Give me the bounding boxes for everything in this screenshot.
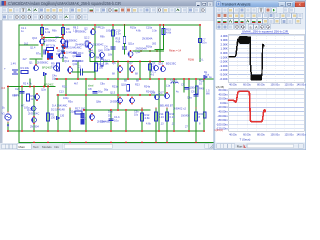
transistor Q5c <box>100 53 105 58</box>
svg-text:120.00u: 120.00u <box>284 133 294 136</box>
svg-text:140.00u: 140.00u <box>296 84 306 87</box>
svg-text:100p: 100p <box>24 107 30 110</box>
svg-text:56p: 56p <box>104 89 109 92</box>
svg-text:165: 165 <box>64 44 69 47</box>
application background <box>0 0 306 150</box>
wire upper-left stub <box>19 44 38 46</box>
svg-text:Transient Analysis: Transient Analysis <box>222 2 251 7</box>
svg-text:0.13: 0.13 <box>170 115 176 119</box>
svg-text:10: 10 <box>199 82 202 86</box>
resistor R6 <box>41 28 44 35</box>
svg-text:3.3n: 3.3n <box>152 30 157 33</box>
wire v x167 <box>166 108 168 143</box>
svg-text:v(34,0): v(34,0) <box>215 128 223 132</box>
svg-text:40.00u: 40.00u <box>229 133 237 136</box>
diode D5 <box>47 54 52 60</box>
svg-text:C13: C13 <box>59 91 64 94</box>
resistor R23b <box>127 85 130 92</box>
wire main mid rail y79 <box>55 78 214 80</box>
wire v x174 <box>173 79 175 131</box>
svg-text:300: 300 <box>152 43 157 46</box>
svg-text:4.6k: 4.6k <box>166 31 172 35</box>
junction dots new wires <box>124 24 126 26</box>
wire mid row y61.5 <box>112 61 164 63</box>
wire v x184 <box>183 79 185 92</box>
top plot horizontal gridlines <box>229 36 305 79</box>
svg-text:O.L: O.L <box>200 59 205 62</box>
svg-text:C6: C6 <box>191 90 195 94</box>
bottom plot x labels <box>229 133 306 136</box>
svg-text:C1: C1 <box>78 65 82 69</box>
bottom plot frame <box>229 89 305 131</box>
resistor R17 <box>75 111 82 114</box>
transistor Q15 <box>154 66 159 71</box>
wire v x90 <box>89 49 91 62</box>
capacitor C2 <box>20 91 24 93</box>
svg-text:x: x <box>299 2 301 7</box>
svg-text:C14: C14 <box>151 65 156 68</box>
svg-text:C8: C8 <box>88 87 92 91</box>
wire v x204 <box>203 79 205 131</box>
resistor R12 <box>141 113 144 121</box>
transistor Q2b <box>88 44 93 49</box>
wire top supply rail <box>19 24 200 26</box>
wire v x42 top <box>41 25 43 39</box>
wire v x34 <box>33 87 35 132</box>
wire stub y49.5 <box>155 49 164 51</box>
wire v x86 <box>85 79 87 131</box>
main toolbar row 2 <box>0 14 306 21</box>
diode D5b solid <box>81 120 84 125</box>
transistor Q10 <box>40 39 45 44</box>
svg-text:4.6k: 4.6k <box>145 116 151 120</box>
wire v x95 <box>94 25 96 79</box>
svg-text:x: x <box>209 3 211 7</box>
junction dots top rail <box>41 24 43 26</box>
svg-text:D2a: D2a <box>70 111 75 114</box>
wire v x126 <box>125 110 127 131</box>
wire v x66 <box>65 79 67 95</box>
svg-text:D5a: D5a <box>108 111 113 114</box>
svg-text:Text: Text <box>33 145 39 149</box>
capacitor C15 <box>123 46 127 48</box>
diode D5c solid <box>81 114 84 119</box>
resistor R43 <box>101 59 104 66</box>
wire row y95 <box>57 94 164 96</box>
svg-text:R2 4.7k: R2 4.7k <box>23 83 32 86</box>
bottom plot zero axis <box>229 106 305 108</box>
svg-text:2N3904A: 2N3904A <box>142 38 153 41</box>
svg-text:R23: R23 <box>135 84 140 87</box>
svg-text:Q45: Q45 <box>98 50 103 53</box>
main window bottom tab bar <box>0 143 214 150</box>
inductor L1 <box>171 82 178 83</box>
transistor Q4 <box>32 118 37 123</box>
wire v x8 source bottom <box>7 122 9 131</box>
junction dots resistor pins <box>41 34 43 36</box>
svg-text:Q3a: Q3a <box>41 89 46 92</box>
svg-text:R16a: R16a <box>146 46 153 49</box>
svg-text:2N3904C: 2N3904C <box>93 44 104 47</box>
wire v x58 <box>57 95 59 131</box>
wire v x163.5 <box>163 25 165 50</box>
svg-text:10u: 10u <box>134 113 139 116</box>
svg-text:Rbias = 14: Rbias = 14 <box>169 50 182 53</box>
transistor Q14b <box>59 53 64 58</box>
svg-text:BD139C: BD139C <box>166 62 176 66</box>
capacitor C9 <box>185 87 189 89</box>
capacitor C4 <box>77 54 81 56</box>
wire v x140 <box>139 62 141 80</box>
svg-text:Q2.2: Q2.2 <box>84 37 90 40</box>
main toolbar row 1 <box>0 7 306 14</box>
svg-text:10u: 10u <box>114 119 119 123</box>
svg-text:1N5402 x2: 1N5402 x2 <box>173 107 187 111</box>
svg-text:4k7: 4k7 <box>74 83 79 86</box>
wire v x70 <box>69 108 71 131</box>
junction dots row y110 <box>83 109 85 111</box>
wire h y59 <box>30 58 42 60</box>
schematic canvas <box>0 21 214 143</box>
svg-text:R3a: R3a <box>12 95 17 98</box>
svg-text:0.13: 0.13 <box>159 115 165 119</box>
wire v x111 <box>110 110 112 131</box>
transient analysis window <box>214 0 306 150</box>
diode D1 <box>44 73 47 76</box>
svg-text:D4a: D4a <box>63 57 68 60</box>
svg-text:Q8a: Q8a <box>96 101 101 104</box>
svg-text:+: + <box>4 67 6 71</box>
wire v x142 <box>141 108 143 131</box>
svg-text:1.1k: 1.1k <box>45 30 51 34</box>
svg-text:100p: 100p <box>106 30 112 33</box>
wire v x159 <box>158 79 160 131</box>
top waveform (black) <box>229 36 265 81</box>
svg-text:Models: Models <box>42 145 52 149</box>
wire left border rail <box>18 25 20 143</box>
svg-text:100.00u: 100.00u <box>270 133 280 136</box>
svg-text:C:\MC8\DATA\Adam Daglikony\UMA: C:\MC8\DATA\Adam Daglikony\UMAK\UMAK_256… <box>8 1 121 6</box>
svg-text:R5a: R5a <box>68 101 73 104</box>
wire v x200 <box>199 25 201 62</box>
main window title bar (inactive gray-blue) <box>0 0 306 7</box>
svg-text:L1a: L1a <box>166 85 171 88</box>
battery V2 <box>13 69 18 71</box>
wire v x196 <box>195 79 197 143</box>
svg-text:R9b: R9b <box>100 36 105 39</box>
resistor R16 <box>166 112 169 121</box>
resistor R19 <box>162 29 165 35</box>
diode D2 <box>57 117 60 120</box>
wire v x124.5 low <box>124 49 126 54</box>
resistor R1 <box>21 71 28 74</box>
wire v x124.5 top <box>124 25 126 37</box>
svg-text:4u7: 4u7 <box>23 58 28 61</box>
svg-text:R24 10: R24 10 <box>146 91 155 94</box>
svg-text:1.4V: 1.4V <box>11 62 17 66</box>
transistor Q3 <box>35 95 40 100</box>
plot panel <box>216 30 306 143</box>
svg-text:Q10: Q10 <box>32 36 38 40</box>
wire v x128 <box>127 62 129 80</box>
svg-text:130: 130 <box>51 116 56 120</box>
resistor R9 <box>57 63 60 71</box>
wire v x156 <box>155 108 157 143</box>
wire bottom rail y131 <box>8 130 204 132</box>
svg-text:4.6: 4.6 <box>151 73 155 76</box>
capacitor C3 <box>43 50 45 54</box>
svg-text:UMAK_256-b squared 256-b.CIR: UMAK_256-b squared 256-b.CIR <box>242 30 289 34</box>
svg-text:R6b: R6b <box>52 30 57 33</box>
wire bottom border rail <box>19 142 214 144</box>
svg-text:.13: .13 <box>160 123 164 126</box>
top plot y labels <box>220 34 228 81</box>
svg-text:100p: 100p <box>63 97 69 100</box>
junction dots mid row y61.5 <box>112 61 114 63</box>
resistor R8 <box>62 28 65 35</box>
diode D7 <box>204 76 207 79</box>
resistor R40 <box>195 86 198 94</box>
diode D4 <box>62 51 65 54</box>
svg-text:1N5402: 1N5402 <box>181 115 190 118</box>
transistor Q5b <box>90 53 95 58</box>
transistor Q6 <box>118 67 123 72</box>
svg-text:4.6k: 4.6k <box>146 123 151 126</box>
svg-text:140.00u: 140.00u <box>296 133 306 136</box>
wire h y72 left <box>73 71 81 73</box>
svg-text:R18d: R18d <box>188 59 195 62</box>
svg-text:Q44: Q44 <box>88 50 93 53</box>
bottom plot horizontal gridlines <box>229 90 305 129</box>
transistor Q1 <box>34 66 39 71</box>
label misc density <box>2 27 201 129</box>
svg-text:C2: C2 <box>15 87 19 91</box>
svg-text:8W: 8W <box>206 93 210 96</box>
svg-text:Q17: Q17 <box>159 91 165 95</box>
transistor Q18 <box>155 95 160 100</box>
wire h y72 right <box>82 71 94 73</box>
top plot x labels <box>229 84 306 87</box>
svg-text:Q18: Q18 <box>121 84 126 87</box>
svg-text:2N3904C: 2N3904C <box>110 100 121 104</box>
svg-text:80.00u: 80.00u <box>257 133 265 136</box>
capacitor C1 <box>79 69 81 75</box>
wire v x48 <box>47 87 49 132</box>
wire v x42 lower <box>41 45 43 57</box>
svg-text:C5a: C5a <box>100 121 105 124</box>
transistor Q8 <box>90 115 95 120</box>
svg-text:R1 20k: R1 20k <box>21 66 30 70</box>
svg-text:V1: V1 <box>2 112 6 116</box>
wire row y110 <box>84 109 150 111</box>
junction dots y72 <box>72 71 74 73</box>
diode D3 <box>62 46 65 49</box>
svg-text:165: 165 <box>85 44 90 47</box>
svg-text:0.6: 0.6 <box>2 87 6 90</box>
svg-text:C1.b: C1.b <box>114 115 120 119</box>
wire v x165 <box>164 79 166 95</box>
bottom plot y labels <box>216 88 228 131</box>
svg-text:56p: 56p <box>98 90 103 94</box>
svg-text:Q13: Q13 <box>110 91 116 95</box>
svg-text:Q1.4: Q1.4 <box>30 47 36 50</box>
svg-text:Q41: Q41 <box>73 55 78 58</box>
resistor R3 <box>27 94 30 101</box>
resistor R26b <box>149 64 152 70</box>
capacitor C8 <box>93 91 97 93</box>
transistor Q13 <box>118 98 123 103</box>
transistor Q9 <box>61 39 66 44</box>
junction dots border rail y142.5 <box>33 142 35 144</box>
wire v x63 top <box>62 25 64 39</box>
svg-text:2N3906C: 2N3906C <box>45 39 56 43</box>
svg-text:40.00u: 40.00u <box>229 84 237 87</box>
transistor Q16 <box>161 67 166 72</box>
resistor R7 <box>47 48 54 51</box>
resistor R27 <box>203 112 206 118</box>
transistor Q11 <box>128 52 133 57</box>
svg-text:Run: Run <box>237 145 243 149</box>
wire h y61.5 ext <box>90 61 112 63</box>
junction dots row y95 <box>57 94 59 96</box>
resistor R5 <box>47 113 50 121</box>
resistor R10b <box>86 41 89 47</box>
wire v x44 <box>43 38 45 46</box>
capacitor C6 <box>194 94 198 96</box>
wire v x78 <box>77 62 79 80</box>
wire v x36 Q1 <box>35 59 37 65</box>
svg-text:Info: Info <box>54 145 59 149</box>
svg-text:R7a: R7a <box>36 53 41 56</box>
capacitor C7 <box>199 39 202 43</box>
wire v x160 <box>159 25 161 62</box>
wire input row y86.5 <box>8 86 55 88</box>
top plot vertical gridlines <box>238 34 294 82</box>
svg-text:1.1k: 1.1k <box>66 30 72 34</box>
source V1 <box>5 114 11 120</box>
svg-text:4.6k: 4.6k <box>136 30 141 33</box>
svg-text:60.00u: 60.00u <box>243 84 251 87</box>
svg-text:2N3904C: 2N3904C <box>28 112 39 116</box>
svg-text:Main: Main <box>19 145 26 149</box>
resistor R4 <box>65 41 68 47</box>
svg-text:T (Secs): T (Secs) <box>240 138 251 142</box>
resistor R14 <box>155 112 158 121</box>
transistor Q5 <box>54 66 59 71</box>
wire v x22 <box>21 87 23 132</box>
top plot frame <box>229 34 305 82</box>
wire v x118 <box>117 62 119 111</box>
svg-text:Q12: Q12 <box>64 59 70 63</box>
transistor Q12 <box>68 68 73 73</box>
svg-text:R7 3.3k: R7 3.3k <box>46 44 56 48</box>
wire v x45 D1 <box>44 76 46 87</box>
wire v x63 lower <box>62 45 64 62</box>
svg-text:BFQ40C: BFQ40C <box>42 67 52 70</box>
transistor Q7b <box>31 106 36 111</box>
top plot zero axis <box>229 56 305 58</box>
svg-text:100.00u: 100.00u <box>270 84 280 87</box>
svg-text:C1b: C1b <box>100 27 105 30</box>
svg-text:Q11a: Q11a <box>128 43 135 46</box>
wire v x113 <box>112 25 114 62</box>
transistor Q2 <box>91 30 96 35</box>
resistor R15 <box>123 37 126 44</box>
svg-text:-6.00K: -6.00K <box>220 77 228 81</box>
svg-text:Q16: Q16 <box>158 62 164 66</box>
transistor Q17 <box>165 94 170 99</box>
wire base link Q10-Q9 <box>44 37 62 39</box>
svg-text:BEL4B5.BT: BEL4B5.BT <box>160 105 174 108</box>
transistor Q7 <box>130 67 135 72</box>
capacitor C10 <box>112 30 115 36</box>
svg-text:Q42: Q42 <box>73 63 78 66</box>
svg-text:R2a: R2a <box>62 86 67 89</box>
capacitor C5 <box>109 118 113 120</box>
svg-text:C11: C11 <box>96 26 101 29</box>
bottom waveform (red) <box>229 91 266 122</box>
svg-text:4.6k: 4.6k <box>116 40 121 43</box>
svg-text:R23a: R23a <box>112 86 119 89</box>
svg-text:ideal: ideal <box>88 85 94 88</box>
svg-text:80.00u: 80.00u <box>257 84 265 87</box>
svg-text:60.00u: 60.00u <box>243 133 251 136</box>
svg-text:1.1k: 1.1k <box>73 29 78 32</box>
svg-text:C9a: C9a <box>187 97 192 100</box>
svg-text:2N3906C: 2N3906C <box>37 61 48 65</box>
transient bottom bar <box>216 143 306 150</box>
svg-text:R40: R40 <box>199 88 204 91</box>
wire v x30 <box>29 79 31 87</box>
svg-text:10n: 10n <box>202 41 207 45</box>
svg-text:.13: .13 <box>171 123 175 126</box>
transistor Q14 <box>130 98 135 103</box>
wire v x124.5 mid <box>124 44 126 48</box>
wire v x8 source top <box>7 87 9 113</box>
wire h y51 <box>133 50 164 52</box>
svg-text:2N3904: 2N3904 <box>30 126 39 129</box>
resistor R20 load <box>195 112 198 121</box>
bottom plot vertical gridlines <box>238 89 294 131</box>
wire v x189 <box>188 79 190 131</box>
svg-text:D14: D14 <box>56 53 61 56</box>
svg-text:100p: 100p <box>104 47 110 51</box>
junction dots base row <box>43 37 45 39</box>
junction dots transistor pins <box>41 38 43 40</box>
svg-text:3.3n: 3.3n <box>116 32 122 36</box>
wire v x150 <box>149 62 151 80</box>
svg-text:R24a: R24a <box>144 86 151 89</box>
svg-text:130: 130 <box>60 115 65 118</box>
svg-text:1k2: 1k2 <box>24 43 29 46</box>
svg-text:10u: 10u <box>52 77 57 80</box>
svg-text:C9: C9 <box>181 83 185 87</box>
svg-text:150: 150 <box>51 65 56 69</box>
junction dots main rail y79 <box>56 78 58 80</box>
svg-text:120.00u: 120.00u <box>284 84 294 87</box>
svg-text:Q1: Q1 <box>29 61 33 65</box>
svg-text:Q7: Q7 <box>129 61 133 65</box>
svg-text:C8a: C8a <box>100 83 105 86</box>
svg-text:Out: Out <box>205 74 209 77</box>
junction dots input row <box>7 86 9 88</box>
resistor R11 <box>95 63 98 71</box>
capacitor C4b <box>111 46 115 48</box>
junction dots bottom rail y131 <box>7 130 9 132</box>
svg-text:BFQ40C: BFQ40C <box>44 84 54 87</box>
svg-text:Q9: Q9 <box>55 35 59 39</box>
svg-text:D.A 1N4148C: D.A 1N4148C <box>52 105 67 108</box>
